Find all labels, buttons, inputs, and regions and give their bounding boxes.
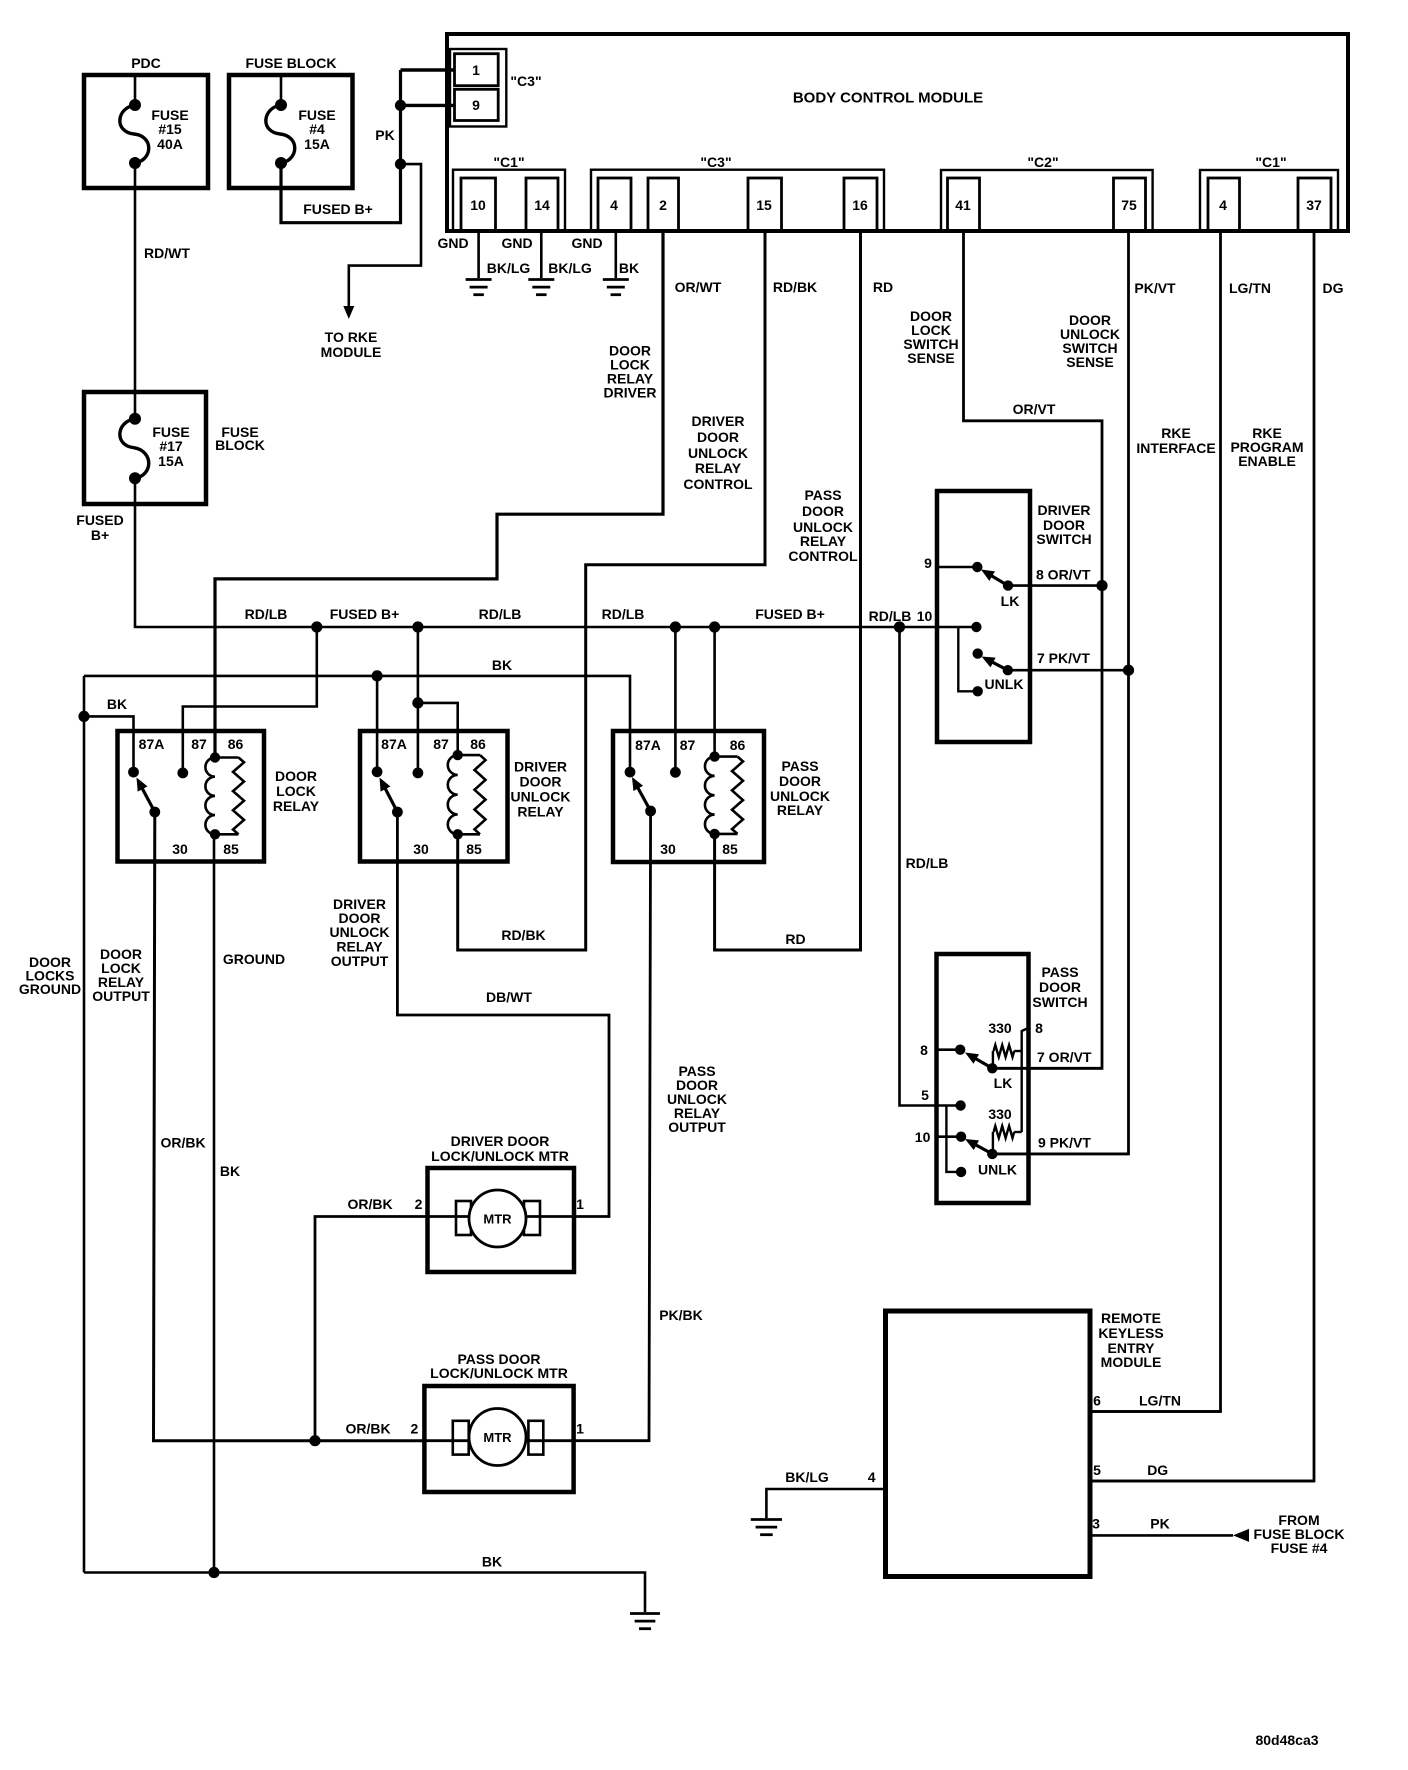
M2 right brush bbox=[528, 1421, 543, 1455]
svg-text:GND: GND bbox=[501, 235, 532, 251]
junction RD/LB branch bbox=[894, 621, 905, 632]
pass door switch S2 box bbox=[937, 954, 1029, 1203]
relay3 pin 87 bbox=[670, 737, 695, 778]
svg-text:GROUND: GROUND bbox=[19, 981, 81, 997]
connector C1 right shield bbox=[1200, 170, 1338, 231]
svg-text:MODULE: MODULE bbox=[321, 344, 382, 360]
pass switch pin5 dot bbox=[955, 1100, 965, 1110]
junction BK relay2 87A bbox=[372, 670, 383, 681]
svg-text:UNLOCK: UNLOCK bbox=[688, 445, 748, 461]
label PK rke bbox=[1150, 1516, 1169, 1532]
svg-text:OUTPUT: OUTPUT bbox=[331, 953, 389, 969]
svg-text:SWITCH: SWITCH bbox=[1036, 531, 1091, 547]
junction OR/BK bbox=[309, 1435, 320, 1446]
label RD/BK 2 bbox=[501, 927, 545, 943]
svg-text:RD/WT: RD/WT bbox=[144, 245, 190, 261]
fuse block label bbox=[246, 55, 337, 71]
driver switch UNLK contact bbox=[973, 648, 983, 658]
svg-text:1: 1 bbox=[576, 1421, 584, 1437]
svg-text:30: 30 bbox=[172, 841, 188, 857]
label DOOR LOCK SWITCH SENSE bbox=[903, 308, 958, 366]
svg-text:4: 4 bbox=[868, 1469, 876, 1485]
label C2 bbox=[1027, 154, 1058, 170]
label DG rke bbox=[1147, 1462, 1168, 1478]
pass switch LK lever bbox=[965, 1053, 998, 1074]
svg-text:85: 85 bbox=[466, 841, 482, 857]
pin 15 box bbox=[748, 178, 782, 231]
relay1 label 86 bbox=[228, 736, 244, 752]
svg-text:OR/VT: OR/VT bbox=[1013, 401, 1056, 417]
wire BK stub relay1 87A bbox=[84, 716, 134, 772]
label RD/LB bus 2 bbox=[479, 606, 522, 622]
label FUSED B+ bus 2 bbox=[755, 606, 825, 622]
svg-text:10: 10 bbox=[915, 1129, 931, 1145]
wire PK/VT unlock switch sense bbox=[992, 231, 1128, 1154]
svg-text:BK: BK bbox=[492, 657, 512, 673]
svg-text:RELAY: RELAY bbox=[695, 460, 742, 476]
svg-text:80d48ca3: 80d48ca3 bbox=[1255, 1732, 1318, 1748]
svg-text:7 PK/VT: 7 PK/VT bbox=[1037, 650, 1090, 666]
label OR/BK M1 bbox=[347, 1196, 392, 1212]
svg-text:LG/TN: LG/TN bbox=[1229, 280, 1271, 296]
relay1 pin 87A bbox=[128, 736, 164, 777]
svg-text:15: 15 bbox=[756, 197, 772, 213]
M1 wire pin1 bbox=[526, 1215, 574, 1218]
svg-text:DOOR: DOOR bbox=[520, 774, 562, 790]
relay1 pin 87 bbox=[177, 736, 207, 778]
svg-text:CONTROL: CONTROL bbox=[788, 548, 858, 564]
wire OR/BK to M1 bbox=[315, 1217, 428, 1441]
relay3 coil bbox=[705, 751, 743, 839]
svg-text:DOOR: DOOR bbox=[1039, 979, 1081, 995]
M2 wire pin2 bbox=[424, 1439, 469, 1442]
label PK/VT pin75 bbox=[1134, 280, 1176, 296]
driver switch pin9 wire bbox=[937, 562, 983, 572]
svg-text:"C1": "C1" bbox=[1255, 154, 1286, 170]
pin 75 box bbox=[1114, 178, 1146, 231]
resistor 330 lower bbox=[993, 1126, 1022, 1154]
junction PK pin9 bbox=[395, 100, 406, 111]
svg-text:75: 75 bbox=[1121, 197, 1137, 213]
svg-text:RD/LB: RD/LB bbox=[906, 855, 949, 871]
svg-text:3: 3 bbox=[1092, 1516, 1100, 1532]
label FUSED B+ bbox=[303, 201, 373, 217]
driver switch internal unlk feed bbox=[958, 627, 983, 697]
label FROM FUSE BLOCK FUSE #4 bbox=[1254, 1512, 1345, 1556]
body control module U1 bbox=[447, 34, 1348, 231]
label UNLK pass bbox=[978, 1162, 1017, 1178]
svg-text:PK/VT: PK/VT bbox=[1134, 280, 1176, 296]
svg-text:9: 9 bbox=[924, 555, 932, 571]
label DB/WT bbox=[486, 989, 532, 1005]
label DRIVER DOOR UNLOCK RELAY CONTROL bbox=[683, 413, 753, 492]
driver door lock/unlock motor M1 box bbox=[428, 1168, 575, 1272]
svg-text:"C2": "C2" bbox=[1027, 154, 1058, 170]
label BK bottom bbox=[482, 1554, 502, 1570]
label GROUND bbox=[223, 951, 285, 967]
label REMOTE KEYLESS ENTRY MODULE bbox=[1098, 1310, 1163, 1370]
label RKE PROGRAM ENABLE bbox=[1230, 425, 1303, 469]
fuse #17 15A bbox=[120, 413, 190, 485]
svg-text:5: 5 bbox=[921, 1087, 929, 1103]
svg-text:OR/BK: OR/BK bbox=[345, 1421, 390, 1437]
junction BK stub bbox=[78, 711, 89, 722]
pass door lock/unlock motor M2 box bbox=[424, 1386, 573, 1492]
svg-text:B+: B+ bbox=[91, 527, 109, 543]
svg-text:14: 14 bbox=[534, 197, 550, 213]
svg-text:FUSED B+: FUSED B+ bbox=[330, 606, 400, 622]
svg-text:FUSED: FUSED bbox=[76, 512, 123, 528]
svg-text:DRIVER: DRIVER bbox=[604, 385, 657, 401]
junction PK/VT pin7 bbox=[1123, 665, 1134, 676]
svg-text:85: 85 bbox=[223, 841, 239, 857]
junction driver pin10 bbox=[971, 622, 981, 632]
ground pin10 bbox=[466, 280, 492, 295]
M1 rotor bbox=[469, 1190, 526, 1247]
wire OR/VT lock switch sense bbox=[964, 231, 1103, 1068]
svg-text:BK: BK bbox=[107, 696, 127, 712]
wire RD/BK driver unlock relay control bbox=[458, 231, 765, 950]
svg-text:PASS: PASS bbox=[1041, 964, 1078, 980]
label PASS DOOR UNLOCK RELAY bbox=[770, 758, 830, 818]
BCM title bbox=[793, 90, 983, 107]
pin 1 box bbox=[455, 54, 499, 86]
svg-text:BK/LG: BK/LG bbox=[785, 1469, 829, 1485]
label RKE INTERFACE bbox=[1136, 425, 1215, 456]
svg-text:GND: GND bbox=[571, 235, 602, 251]
driver switch pin7 wire bbox=[1008, 669, 1129, 672]
wire relay3 87 bbox=[674, 627, 677, 772]
label RD/LB bus 3 bbox=[602, 606, 645, 622]
label PASS DOOR UNLOCK RELAY OUTPUT bbox=[667, 1063, 727, 1135]
driver switch UNLK lever bbox=[982, 657, 1014, 676]
label 8 OR/VT bbox=[1036, 567, 1091, 583]
svg-text:10: 10 bbox=[470, 197, 486, 213]
svg-text:DOOR: DOOR bbox=[697, 429, 739, 445]
pass switch pin8 tie bbox=[1022, 1028, 1028, 1132]
svg-text:DRIVER: DRIVER bbox=[692, 413, 745, 429]
svg-text:BLOCK: BLOCK bbox=[215, 437, 265, 453]
label 7 PK/VT bbox=[1037, 650, 1090, 666]
pass switch pin8 wire bbox=[937, 1045, 966, 1055]
label 3 rke bbox=[1092, 1516, 1100, 1532]
wire RD/WT bbox=[134, 163, 137, 419]
svg-text:7 OR/VT: 7 OR/VT bbox=[1037, 1049, 1092, 1065]
label PASS DOOR UNLOCK RELAY CONTROL bbox=[788, 487, 858, 564]
svg-text:DB/WT: DB/WT bbox=[486, 989, 532, 1005]
svg-text:PDC: PDC bbox=[131, 55, 161, 71]
resistor 330 upper bbox=[993, 1045, 1022, 1068]
svg-text:330: 330 bbox=[988, 1106, 1012, 1122]
wire BK bus bbox=[84, 676, 630, 772]
pass switch pin7 wire bbox=[992, 1067, 1102, 1070]
wire relay2 87 bbox=[417, 627, 420, 773]
label OR/VT bbox=[1013, 401, 1056, 417]
label UNLK driver bbox=[985, 676, 1024, 692]
label 8 pass right bbox=[1035, 1020, 1043, 1036]
label LK driver bbox=[1001, 593, 1020, 609]
svg-text:MODULE: MODULE bbox=[1101, 1354, 1162, 1370]
label GND 1 bbox=[437, 235, 468, 251]
svg-text:BK: BK bbox=[220, 1163, 240, 1179]
svg-text:DOOR: DOOR bbox=[275, 768, 317, 784]
relay2 label 85 bbox=[466, 841, 482, 857]
relay2 label 86 bbox=[470, 736, 486, 752]
ground bottom bbox=[630, 1614, 660, 1629]
label FUSE BLOCK 17 bbox=[215, 424, 265, 453]
svg-text:FUSE #4: FUSE #4 bbox=[1271, 1540, 1328, 1556]
svg-text:PASS: PASS bbox=[781, 758, 818, 774]
svg-text:RD/BK: RD/BK bbox=[773, 279, 817, 295]
svg-text:RD/LB: RD/LB bbox=[602, 606, 645, 622]
label 1 M2 bbox=[576, 1421, 584, 1437]
wire OR/WT door lock relay driver bbox=[215, 231, 663, 758]
pass switch internal unlk feed bbox=[946, 1106, 966, 1178]
relay3 label 30 bbox=[660, 841, 676, 857]
svg-text:10: 10 bbox=[917, 608, 933, 624]
relay2 label 30 bbox=[413, 841, 429, 857]
pass switch pin9 wire bbox=[992, 1153, 1128, 1156]
svg-text:DOOR: DOOR bbox=[779, 773, 821, 789]
wire BK left vertical bbox=[83, 676, 86, 1573]
svg-text:9 PK/VT: 9 PK/VT bbox=[1038, 1135, 1091, 1151]
svg-text:LOCK: LOCK bbox=[276, 783, 316, 799]
svg-text:PK: PK bbox=[375, 127, 394, 143]
svg-text:"C3": "C3" bbox=[510, 73, 541, 89]
pin 14 box bbox=[526, 178, 558, 231]
label 330 lower bbox=[988, 1106, 1012, 1122]
junction bus relay2 87 bbox=[412, 621, 423, 632]
label OR/WT bbox=[675, 279, 722, 295]
svg-text:BK: BK bbox=[619, 260, 639, 276]
svg-text:SWITCH: SWITCH bbox=[1032, 994, 1087, 1010]
svg-text:87A: 87A bbox=[139, 736, 165, 752]
svg-text:40A: 40A bbox=[157, 136, 183, 152]
relay1 coil bbox=[205, 752, 244, 839]
ground RKE bbox=[751, 1520, 782, 1535]
label diagram id bbox=[1255, 1732, 1318, 1748]
wire to RKE module bbox=[349, 164, 421, 308]
svg-text:BK/LG: BK/LG bbox=[487, 260, 531, 276]
svg-text:BODY CONTROL MODULE: BODY CONTROL MODULE bbox=[793, 90, 983, 107]
svg-text:DRIVER: DRIVER bbox=[514, 759, 567, 775]
label DRIVER DOOR SWITCH bbox=[1036, 502, 1091, 547]
label GND 2 bbox=[501, 235, 532, 251]
svg-text:FUSE BLOCK: FUSE BLOCK bbox=[246, 55, 337, 71]
svg-text:GROUND: GROUND bbox=[223, 951, 285, 967]
label 4 rke bbox=[868, 1469, 876, 1485]
label RD/BK bbox=[773, 279, 817, 295]
fuse block box bbox=[229, 75, 353, 188]
svg-text:SENSE: SENSE bbox=[907, 350, 954, 366]
svg-text:RD: RD bbox=[873, 279, 893, 295]
wire relay3 86 bbox=[713, 627, 716, 757]
svg-text:FUSED B+: FUSED B+ bbox=[755, 606, 825, 622]
svg-text:6: 6 bbox=[1093, 1393, 1101, 1409]
svg-text:8: 8 bbox=[1035, 1020, 1043, 1036]
wire gnd pin4 bbox=[614, 231, 617, 278]
svg-text:15A: 15A bbox=[158, 453, 184, 469]
wire to pin 1 bbox=[401, 68, 455, 71]
pass door unlock relay K3 box bbox=[613, 731, 764, 862]
label 330 upper bbox=[988, 1020, 1012, 1036]
wire relay1 85 ground bbox=[213, 834, 216, 1572]
svg-text:ENABLE: ENABLE bbox=[1238, 453, 1296, 469]
svg-text:2: 2 bbox=[411, 1421, 419, 1437]
junction bus relay3 86 bbox=[709, 621, 720, 632]
svg-text:RD/BK: RD/BK bbox=[501, 927, 545, 943]
svg-text:1: 1 bbox=[576, 1196, 584, 1212]
label 10 bus bbox=[917, 608, 933, 624]
label 8 pass left bbox=[920, 1042, 928, 1058]
svg-text:RD/LB: RD/LB bbox=[245, 606, 288, 622]
relay3 pin 87A bbox=[625, 737, 661, 777]
pin 4 box bbox=[598, 178, 631, 231]
junction PK RKE bbox=[395, 159, 406, 170]
label OR/BK M2 bbox=[345, 1421, 390, 1437]
pin 16 box bbox=[844, 178, 877, 231]
fuse #15 40A bbox=[120, 75, 189, 169]
svg-text:5: 5 bbox=[1093, 1462, 1101, 1478]
relay1 label 30 bbox=[172, 841, 188, 857]
svg-text:87: 87 bbox=[680, 737, 696, 753]
svg-text:OR/WT: OR/WT bbox=[675, 279, 722, 295]
wire relay1 87 bbox=[183, 627, 317, 773]
svg-text:SENSE: SENSE bbox=[1066, 354, 1113, 370]
wire fused B+ from fuse #4 bbox=[281, 70, 401, 223]
label PASS DOOR LOCK/UNLOCK MTR bbox=[430, 1351, 568, 1381]
svg-text:MTR: MTR bbox=[483, 1430, 512, 1445]
ground pin4 bbox=[603, 280, 629, 295]
junction bus relay1 87 bbox=[311, 621, 322, 632]
wire BK ground line bbox=[84, 1573, 645, 1613]
relay2 pin 87 bbox=[413, 736, 449, 778]
svg-text:PK/BK: PK/BK bbox=[659, 1307, 703, 1323]
fuse block 17 box bbox=[84, 392, 206, 504]
svg-text:#4: #4 bbox=[309, 121, 325, 137]
label DRIVER DOOR LOCK/UNLOCK MTR bbox=[431, 1133, 569, 1164]
svg-text:30: 30 bbox=[413, 841, 429, 857]
svg-text:4: 4 bbox=[610, 197, 618, 213]
svg-text:DG: DG bbox=[1147, 1462, 1168, 1478]
label RD/LB bus 4 bbox=[869, 608, 912, 624]
label OR/BK left bbox=[160, 1135, 205, 1151]
svg-text:UNLK: UNLK bbox=[978, 1162, 1017, 1178]
relay2 lever bbox=[380, 778, 403, 818]
label RD/LB vert bbox=[906, 855, 949, 871]
svg-text:85: 85 bbox=[722, 841, 738, 857]
connector C3 shield bbox=[591, 170, 884, 231]
svg-text:15A: 15A bbox=[304, 136, 330, 152]
svg-text:GND: GND bbox=[437, 235, 468, 251]
label BK stub bbox=[107, 696, 127, 712]
wire RD pass unlock relay control bbox=[715, 231, 861, 950]
junction OR/VT pin8 bbox=[1096, 580, 1107, 591]
arrow from fuse block bbox=[1233, 1529, 1249, 1542]
svg-text:REMOTE: REMOTE bbox=[1101, 1310, 1161, 1326]
driver switch pin8 wire bbox=[1008, 584, 1102, 587]
svg-text:RD: RD bbox=[785, 931, 805, 947]
label DOOR UNLOCK SWITCH SENSE bbox=[1060, 312, 1120, 370]
svg-text:86: 86 bbox=[730, 737, 746, 753]
svg-text:87: 87 bbox=[433, 736, 449, 752]
M1 wire pin2 bbox=[428, 1215, 470, 1218]
svg-text:9: 9 bbox=[472, 97, 480, 113]
svg-text:INTERFACE: INTERFACE bbox=[1136, 440, 1215, 456]
svg-text:LK: LK bbox=[1001, 593, 1020, 609]
svg-text:UNLOCK: UNLOCK bbox=[511, 789, 571, 805]
junction bus relay3 87 bbox=[670, 621, 681, 632]
RKE pin5 wire bbox=[1090, 1480, 1314, 1483]
label BK/LG rke bbox=[785, 1469, 829, 1485]
junction relay2 86 branch bbox=[412, 697, 423, 708]
label DOOR LOCK RELAY OUTPUT bbox=[92, 946, 150, 1004]
svg-text:RD/LB: RD/LB bbox=[479, 606, 522, 622]
relay2 pin 87A bbox=[372, 736, 407, 777]
remote keyless entry module U2 box bbox=[886, 1311, 1091, 1577]
wire pass unlock relay output PK/BK bbox=[574, 811, 651, 1441]
label BK 3 bbox=[619, 260, 639, 276]
label RD bbox=[873, 279, 893, 295]
label 2 M2 bbox=[411, 1421, 419, 1437]
label TO RKE MODULE bbox=[321, 329, 382, 360]
wire to pin 9 bbox=[401, 104, 455, 107]
svg-text:OUTPUT: OUTPUT bbox=[92, 988, 150, 1004]
relay1 lever bbox=[137, 778, 161, 818]
label C3 top bbox=[510, 73, 541, 89]
label LG/TN rke bbox=[1139, 1393, 1181, 1409]
label LG/TN pin4 bbox=[1229, 280, 1271, 296]
pass switch pin10 wire bbox=[937, 1132, 967, 1142]
label PK bbox=[375, 127, 394, 143]
relay3 label 85 bbox=[722, 841, 738, 857]
label 1 M1 bbox=[576, 1196, 584, 1212]
label RD/LB bus 1 bbox=[245, 606, 288, 622]
wire relay2 86 bbox=[418, 703, 458, 755]
svg-text:RELAY: RELAY bbox=[517, 804, 564, 820]
wire RD/LB to pass switch pin5 bbox=[900, 627, 961, 1106]
label DRIVER DOOR UNLOCK RELAY OUTPUT bbox=[330, 896, 390, 969]
svg-text:86: 86 bbox=[228, 736, 244, 752]
label PK/BK bbox=[659, 1307, 703, 1323]
svg-text:"C1": "C1" bbox=[493, 154, 524, 170]
label DRIVER DOOR UNLOCK RELAY bbox=[511, 759, 571, 820]
label FUSED B+ 17 bbox=[76, 512, 123, 543]
RKE pin6 wire bbox=[1090, 1410, 1221, 1413]
svg-text:330: 330 bbox=[988, 1020, 1012, 1036]
svg-text:1: 1 bbox=[472, 62, 480, 78]
arrow to RKE module bbox=[343, 306, 354, 319]
svg-text:OR/BK: OR/BK bbox=[160, 1135, 205, 1151]
relay1 label 85 bbox=[223, 841, 239, 857]
svg-text:DOOR: DOOR bbox=[802, 503, 844, 519]
svg-text:KEYLESS: KEYLESS bbox=[1098, 1325, 1163, 1341]
svg-text:DG: DG bbox=[1323, 280, 1344, 296]
label BK bus bbox=[492, 657, 512, 673]
label 9 PK/VT bbox=[1038, 1135, 1091, 1151]
label GND 3 bbox=[571, 235, 602, 251]
label 6 bbox=[1093, 1393, 1101, 1409]
svg-text:16: 16 bbox=[852, 197, 868, 213]
label BK/LG 1 bbox=[487, 260, 531, 276]
M1 left brush bbox=[456, 1201, 471, 1235]
connector C1 shield bbox=[453, 170, 565, 231]
ground pin14 bbox=[528, 280, 554, 295]
label BK mid bbox=[220, 1163, 240, 1179]
driver switch LK lever bbox=[981, 570, 1013, 591]
driver door unlock relay K2 box bbox=[360, 731, 508, 862]
svg-text:4: 4 bbox=[1219, 197, 1227, 213]
